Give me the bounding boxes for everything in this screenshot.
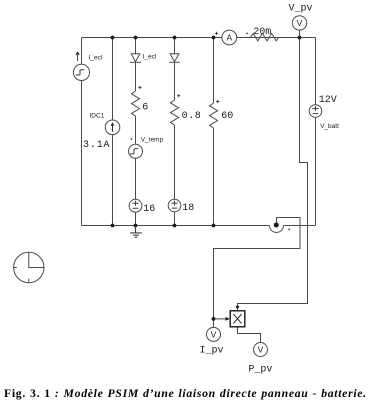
svg-text:0.8: 0.8 xyxy=(182,111,202,122)
svg-text:V_temp: V_temp xyxy=(141,137,164,144)
svg-text:P_pv: P_pv xyxy=(248,365,272,376)
svg-text:A: A xyxy=(226,33,232,43)
svg-text:I_pv: I_pv xyxy=(200,346,224,357)
svg-text:16: 16 xyxy=(143,204,155,215)
svg-text:V: V xyxy=(297,18,303,28)
svg-text:V_batt: V_batt xyxy=(320,123,339,130)
svg-text:3.1A: 3.1A xyxy=(83,140,110,151)
svg-text:6: 6 xyxy=(142,103,148,114)
svg-text:V: V xyxy=(258,345,264,355)
svg-text:12V: 12V xyxy=(319,95,337,106)
svg-text:20m: 20m xyxy=(253,27,271,38)
svg-text:V_pv: V_pv xyxy=(289,4,313,15)
svg-text:60: 60 xyxy=(221,111,233,122)
svg-text:I_ecl: I_ecl xyxy=(89,55,103,62)
svg-text:I_ecl: I_ecl xyxy=(143,54,157,61)
svg-text:18: 18 xyxy=(182,203,194,214)
svg-text:IDC1: IDC1 xyxy=(90,112,105,119)
svg-text:V: V xyxy=(211,329,217,339)
